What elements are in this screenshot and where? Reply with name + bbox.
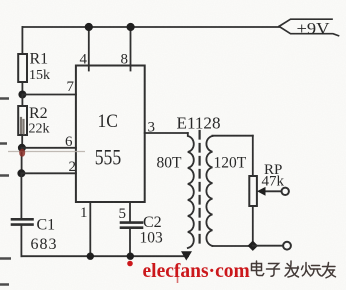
resistor R2 [18, 106, 27, 135]
scan artifact red drip below logo f [177, 277, 179, 283]
node pin4 on rail [85, 23, 93, 31]
wire junction to output terminal [253, 245, 283, 247]
IC 555 timer body [76, 66, 145, 203]
char fa [285, 261, 299, 277]
char dian [252, 261, 264, 276]
wire R2 bottom lead [21, 135, 23, 148]
wire pin 2 [21, 172, 76, 174]
terminal output bottom [283, 242, 291, 250]
wire R1 top lead [21, 27, 23, 54]
wire pin 6 [22, 147, 76, 149]
scan artifact marks left edge [0, 99, 11, 285]
paper noise texture [0, 0, 1, 1]
wire RP bottom lead [252, 206, 254, 246]
node secondary bottom junction [248, 241, 258, 251]
char you [322, 263, 336, 278]
wire pin 4 [88, 27, 90, 71]
node C2 on bottom rail [127, 253, 134, 260]
wire top rail +9V [22, 26, 279, 28]
resistor R1 [18, 54, 27, 82]
wire pin 3 [145, 132, 188, 134]
watermark chinese dianzifashaoyou hand-drawn [252, 261, 336, 278]
node R2/pin6 junction [18, 144, 26, 152]
wire C1 bottom lead [20, 226, 22, 256]
char zi [267, 264, 280, 277]
scan artifact faint line near pin6 [8, 151, 85, 153]
node pin1 on bottom rail [87, 253, 94, 260]
wire junction to pin2 node [21, 148, 23, 174]
char shao [302, 263, 322, 277]
terminal wiper [282, 188, 289, 195]
capacitor C1 [12, 219, 33, 224]
node pin2/C1 junction [17, 169, 25, 177]
wire bottom rail [21, 255, 188, 257]
transformer secondary winding 120T [206, 136, 212, 246]
node 80T bottom triangle [181, 251, 192, 260]
wire 120T top to RP [212, 135, 252, 137]
watermark red dot artifact [127, 261, 133, 267]
wire RP top lead [252, 136, 254, 176]
wire pin 8 [130, 27, 132, 71]
wire pin 7 [22, 94, 76, 96]
capacitor C2 [121, 223, 142, 228]
wire C2 bottom lead [129, 229, 131, 257]
transformer core dashed line [199, 131, 201, 247]
potentiometer RP body [249, 176, 257, 206]
wire R2 top lead [21, 95, 23, 107]
wire pin 1 [89, 202, 91, 256]
wire RP wiper [264, 190, 281, 192]
scan artifact red dot near R2 [19, 149, 25, 157]
wire 120T bottom [212, 245, 252, 247]
+9V supply arrow symbol [279, 19, 339, 36]
transformer primary winding 80T [188, 133, 194, 248]
wire pin 5 top lead [129, 202, 131, 222]
node pin8 on rail [127, 23, 135, 31]
wire R1 bottom lead [21, 82, 23, 95]
node R1/R2/pin7 junction [18, 91, 26, 99]
wire C1 top lead [20, 173, 22, 218]
wiper arrowhead [257, 187, 266, 196]
